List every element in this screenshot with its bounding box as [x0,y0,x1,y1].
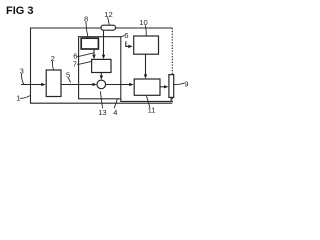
svg-text:4: 4 [113,108,117,117]
wire box10 to box11 [145,54,147,76]
svg-text:6: 6 [124,31,128,40]
leader 3 [22,74,24,84]
wire 6 to box10 [126,41,130,46]
arrowhead into box11 left [129,83,133,86]
box 2 [46,70,61,97]
inner unit box 4 [79,37,121,99]
arrowhead into circle top [100,76,103,80]
svg-text:1: 1 [16,94,20,103]
leader 2 [52,61,53,70]
svg-text:11: 11 [148,106,156,115]
svg-text:3: 3 [20,67,24,76]
leader 10 [144,25,147,36]
leader 9 [174,83,184,84]
feedback wire box9 to unit4 [121,97,171,101]
leader 5 [68,78,70,83]
arrowhead into box10 left [128,45,132,48]
wire circle to box11 [106,84,131,86]
box 9 (actuator on dashed boundary) [169,75,174,98]
wire box7 to circle [100,73,102,78]
svg-text:2: 2 [51,54,55,63]
svg-text:12: 12 [104,10,112,19]
leader 6 right [121,35,124,37]
box 11 [134,79,160,95]
wire box8 to box7 [93,49,95,57]
leader 4 [114,99,117,108]
wire pill12 to box7 [103,30,105,56]
box 10 [134,36,159,54]
box 8 [81,38,98,49]
arrowhead into box9 left [164,85,168,88]
wire box11 to box9 [160,86,165,88]
arrowhead into box7 top from box8 [92,55,95,59]
svg-text:9: 9 [184,80,188,89]
summing junction circle 13 [97,80,106,89]
leader 12 [108,17,110,25]
arrowhead into box7 top from pill [102,55,105,59]
outer boundary box (solid top/left/bottom, dashed right) [31,28,173,103]
svg-text:5: 5 [66,70,70,79]
leader 13 [100,91,102,108]
arrowhead into box2 [41,83,45,86]
arrowhead into circle left [93,83,97,86]
svg-text:FIG 3: FIG 3 [6,5,34,17]
wire input 3 [21,84,43,86]
svg-text:13: 13 [98,108,106,117]
leader 1 [20,96,30,99]
leader 6 left [77,53,94,57]
svg-text:10: 10 [139,18,147,27]
pill 12 (sensor on top boundary) [101,25,116,30]
svg-text:8: 8 [84,15,88,24]
arrowhead into box11 top [144,74,147,78]
leader 7 [77,61,92,64]
wire box2 to circle [61,84,94,86]
leader 8 [86,22,88,38]
svg-text:7: 7 [73,60,77,69]
leader 11 [146,96,149,108]
box 7 [92,59,111,72]
